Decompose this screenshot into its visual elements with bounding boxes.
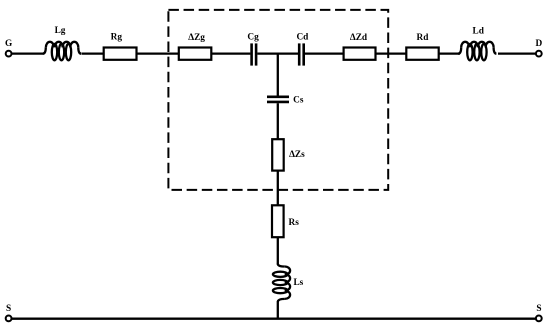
svg-text:Ld: Ld: [473, 26, 485, 36]
wire dZg to Cg: [211, 52, 250, 54]
impedance dZd: [344, 33, 376, 60]
capacitor Cd: [296, 32, 309, 65]
terminal S left: [6, 304, 12, 322]
resistor Rd: [406, 33, 438, 60]
impedance dZg: [179, 33, 212, 60]
svg-text:Lg: Lg: [55, 26, 66, 36]
wire Cg to Cd with junction node: [257, 52, 298, 54]
svg-text:ΔZd: ΔZd: [350, 33, 368, 43]
svg-text:Cg: Cg: [247, 32, 259, 42]
inductor Ld: [458, 26, 496, 60]
wire Cd to dZd: [305, 52, 344, 54]
svg-text:G: G: [5, 39, 12, 49]
wire Cs to dZs: [277, 103, 279, 139]
svg-text:D: D: [535, 39, 542, 49]
wire Ls to bottom rail: [277, 302, 279, 319]
capacitor Cg: [247, 32, 259, 65]
wire G to Lg: [12, 52, 44, 54]
bottom rail wire: [12, 318, 536, 320]
svg-text:Cs: Cs: [293, 96, 304, 106]
impedance dZs: [272, 139, 305, 170]
terminal D: [535, 39, 542, 56]
wire node to Cs: [277, 54, 279, 96]
wire dZd to Rd: [376, 52, 407, 54]
inductor Lg: [43, 26, 81, 60]
svg-text:ΔZg: ΔZg: [188, 33, 205, 43]
dashed intrinsic box: [168, 10, 388, 190]
wire Lg to Rg: [82, 52, 105, 54]
resistor Rs: [272, 205, 299, 237]
terminal G: [5, 39, 12, 56]
resistor Rg: [104, 32, 137, 59]
wire Rd to Ld: [439, 52, 460, 54]
svg-text:S: S: [6, 304, 11, 314]
wire Ld to D: [498, 52, 536, 54]
svg-text:Cd: Cd: [296, 32, 309, 42]
terminal S right: [536, 304, 542, 322]
svg-text:S: S: [536, 304, 541, 314]
svg-text:Rd: Rd: [417, 33, 430, 43]
svg-text:Ls: Ls: [293, 278, 303, 288]
capacitor Cs: [267, 96, 304, 106]
svg-text:Rs: Rs: [289, 218, 300, 228]
wire Rg to dZg: [137, 52, 180, 54]
svg-text:ΔZs: ΔZs: [289, 150, 305, 160]
wire dZs to Rs: [277, 171, 279, 206]
inductor Ls: [273, 264, 304, 302]
svg-text:Rg: Rg: [111, 32, 123, 42]
wire Rs to Ls: [277, 237, 279, 264]
